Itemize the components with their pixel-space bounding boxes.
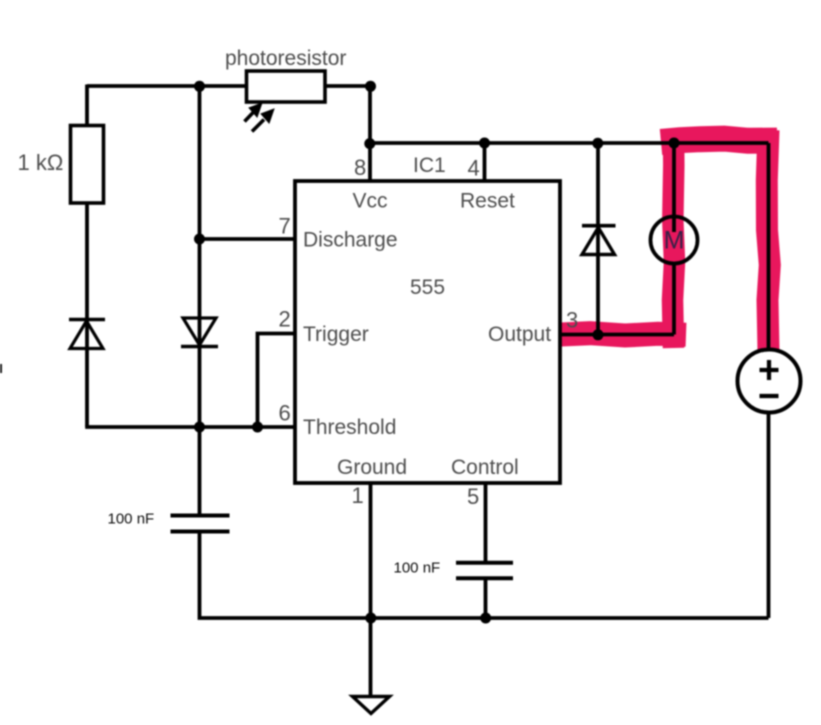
highlighted net (output to motor to battery) bbox=[561, 130, 777, 351]
svg-text:3: 3 bbox=[566, 308, 578, 333]
wire battery bottom vertical bbox=[767, 413, 771, 618]
svg-text:Output: Output bbox=[488, 323, 551, 346]
node E: flyback top junction bbox=[592, 138, 603, 149]
svg-text:IC1: IC1 bbox=[413, 154, 446, 177]
ground bbox=[353, 697, 390, 714]
node H: threshold mid junction bbox=[194, 422, 205, 433]
diode D1 (left, pointing up) bbox=[69, 320, 105, 349]
wire trigger stub and vertical bbox=[258, 334, 296, 428]
svg-text:7: 7 bbox=[279, 214, 291, 239]
node B: photoresistor right junction bbox=[365, 81, 376, 92]
photoresistor bbox=[225, 47, 346, 132]
wire discharge horizontal bbox=[200, 237, 296, 241]
svg-text:Trigger: Trigger bbox=[303, 323, 369, 346]
node A: top-left junction bbox=[194, 81, 205, 92]
svg-text:Control: Control bbox=[451, 456, 519, 479]
svg-text:5: 5 bbox=[467, 484, 479, 509]
svg-text:100 nF: 100 nF bbox=[108, 511, 155, 528]
wire pin1 vertical bbox=[369, 483, 373, 699]
svg-text:Vcc: Vcc bbox=[353, 190, 388, 213]
svg-text:2: 2 bbox=[279, 307, 291, 332]
svg-text:Discharge: Discharge bbox=[303, 229, 398, 252]
wire output horizontal bbox=[560, 333, 674, 337]
svg-text:4: 4 bbox=[468, 156, 480, 181]
wire threshold horizontal bbox=[85, 425, 295, 429]
svg-text:6: 6 bbox=[279, 401, 291, 426]
diode D3 flyback (pointing up) bbox=[582, 226, 616, 255]
wire pin5 capacitor to bottom bbox=[484, 578, 488, 618]
node D: pin4 branch junction bbox=[479, 138, 490, 149]
wire photoresistor right to node bbox=[325, 84, 370, 88]
wire pin8 vertical bbox=[368, 86, 372, 181]
wire pin5 vertical bbox=[484, 483, 488, 563]
wire mid vertical threshold to capacitor bbox=[198, 427, 202, 516]
svg-text:Threshold: Threshold bbox=[303, 416, 396, 439]
node L: pin5 bottom junction bbox=[480, 613, 491, 624]
wire mid vertical capacitor to bottom bbox=[200, 532, 769, 619]
wire left vertical upper bbox=[85, 85, 89, 127]
IC U1 555 timer (IC1) body bbox=[295, 154, 560, 483]
wire motor vertical lower bbox=[672, 263, 676, 335]
svg-text:Reset: Reset bbox=[460, 190, 515, 213]
diode D2 (middle, pointing down) bbox=[181, 318, 218, 347]
wire top-right horizontal bbox=[370, 141, 769, 145]
svg-text:Ground: Ground bbox=[337, 456, 407, 479]
resistor R1 1 kOhm bbox=[18, 126, 104, 204]
wire battery top vertical bbox=[767, 143, 771, 350]
wire mid vertical discharge to threshold bbox=[198, 239, 202, 427]
node F: motor top junction bbox=[669, 138, 680, 149]
plus mark bbox=[767, 360, 771, 380]
svg-text:1: 1 bbox=[352, 483, 364, 508]
wire mid vertical top bbox=[198, 86, 202, 239]
svg-text:1 kΩ: 1 kΩ bbox=[18, 150, 64, 175]
wire top-left horizontal bbox=[87, 84, 247, 88]
node K: pin1 bottom junction bbox=[365, 613, 376, 624]
wire left vertical resistor to threshold line bbox=[85, 202, 89, 427]
svg-text:M: M bbox=[664, 227, 685, 255]
wire motor vertical upper bbox=[672, 143, 676, 232]
svg-text:8: 8 bbox=[354, 155, 366, 180]
battery / voltage source bbox=[738, 350, 801, 413]
wire flyback diode branch bbox=[596, 143, 600, 335]
svg-text:100 nF: 100 nF bbox=[394, 560, 441, 577]
node C: pin8 branch junction bbox=[364, 138, 375, 149]
node I: trigger-threshold junction bbox=[252, 422, 263, 433]
capacitor C1 100 nF (left) bbox=[108, 511, 230, 532]
svg-text:555: 555 bbox=[410, 276, 445, 299]
motor M bbox=[651, 217, 698, 264]
wire pin4 vertical bbox=[483, 143, 487, 181]
stray mark at left edge bbox=[0, 364, 2, 373]
capacitor C2 100 nF (control) bbox=[394, 560, 514, 579]
node J: flyback output junction bbox=[593, 329, 604, 340]
node G: discharge junction bbox=[194, 234, 205, 245]
minus mark bbox=[760, 394, 779, 398]
svg-text:photoresistor: photoresistor bbox=[225, 47, 346, 70]
